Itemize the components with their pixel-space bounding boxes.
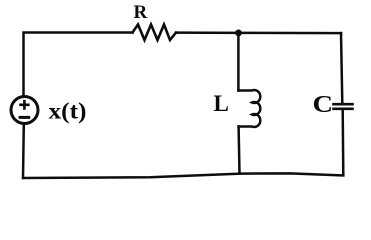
node junction dot: [235, 30, 242, 37]
wire left vertical lower (source to bottom): [22, 124, 25, 178]
voltage source U1 circle: [11, 97, 38, 124]
svg-text:L: L: [214, 91, 229, 116]
inductor L1 bottom lead: [237, 127, 240, 174]
voltage source minus sign: [19, 116, 31, 119]
svg-text:C: C: [313, 91, 334, 118]
wire resistor to node: [176, 31, 239, 34]
inductor L1 top lead: [237, 33, 240, 91]
inductor L1 coil: [238, 90, 260, 127]
wire node to top-right corner: [239, 32, 342, 35]
capacitor C1 top plate: [334, 103, 353, 106]
wire right vertical upper (to capacitor): [341, 33, 342, 103]
svg-text:R: R: [134, 2, 148, 23]
resistor R1 zigzag: [133, 25, 177, 41]
wire bottom: [23, 173, 343, 178]
wire top-left segment: [24, 33, 133, 97]
voltage source plus sign: [19, 100, 29, 110]
wire right vertical lower: [341, 110, 344, 175]
svg-text:x(t): x(t): [49, 99, 87, 125]
capacitor C1 bottom plate: [334, 108, 353, 111]
